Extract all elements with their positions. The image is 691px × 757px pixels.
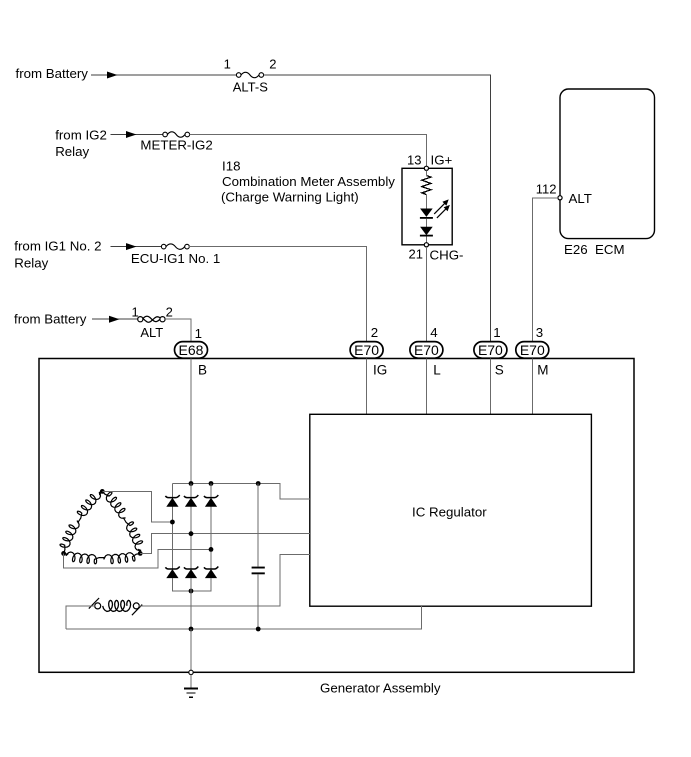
- fuse METER-IG2: [167, 132, 185, 137]
- diode D3 (upper right): [204, 495, 218, 498]
- wire capacitor to top bus: [257, 484, 259, 567]
- svg-text:from IG2: from IG2: [55, 128, 107, 143]
- wire stator phase A to left diode column: [102, 491, 172, 522]
- stator node bottom-right vertex: [138, 551, 143, 556]
- junction dot ground/capacitor: [256, 627, 261, 632]
- svg-text:S: S: [495, 363, 504, 378]
- svg-text:from Battery: from Battery: [16, 66, 89, 81]
- fusible link ALT: [143, 316, 161, 321]
- fuse ALT-S: [241, 72, 259, 77]
- wire LED2 to pin 21: [425, 237, 427, 243]
- svg-text:2: 2: [269, 57, 276, 72]
- wire node M from E70 to IC regulator: [531, 359, 533, 415]
- svg-text:1: 1: [224, 57, 231, 72]
- LED D1 (charge warning light): [420, 209, 433, 217]
- svg-text:Relay: Relay: [55, 144, 89, 159]
- svg-text:L: L: [433, 363, 441, 378]
- brush slash left: [89, 598, 99, 609]
- svg-text:13: 13: [407, 153, 421, 168]
- junction dot bus/capacitor: [256, 481, 261, 486]
- diode column right (vertical wire): [210, 484, 212, 570]
- wire node S from E70 to IC regulator: [489, 359, 491, 415]
- junction dot phase B: [189, 531, 194, 536]
- stator winding side top-left: [60, 491, 102, 553]
- brush terminal left (slip ring): [95, 603, 101, 609]
- junction dot phase A: [170, 520, 175, 525]
- wire stator phase B to middle column and IC regulator: [140, 534, 310, 554]
- stator winding side bottom: [64, 552, 141, 564]
- ground bus wire: [66, 606, 422, 629]
- wire node L from E70 to IC regulator: [425, 359, 427, 415]
- resistor (charge lamp) in meter: [422, 176, 431, 195]
- svg-text:I18: I18: [222, 159, 241, 174]
- wire bottom bus to ground line: [190, 578, 192, 629]
- IC regulator U1: [310, 414, 592, 606]
- svg-text:from Battery: from Battery: [14, 312, 87, 327]
- wire ECM pin 112 to connector E70 pin 3 (node M): [532, 198, 558, 342]
- svg-text:E70: E70: [520, 342, 545, 358]
- svg-text:2: 2: [371, 325, 378, 340]
- LED light emission arrows: [434, 203, 445, 214]
- diode D1 (upper left): [165, 495, 179, 498]
- svg-text:E26 ECM: E26 ECM: [564, 242, 625, 257]
- svg-text:B: B: [198, 363, 207, 378]
- wire ALT to connector E68 pin 1 (node B): [165, 319, 191, 341]
- svg-text:4: 4: [430, 325, 437, 340]
- generator assembly box: [39, 359, 634, 673]
- wire from Battery to fusible link ALT: [92, 318, 138, 320]
- connector E70 pin 2 (IG): [350, 342, 383, 359]
- wire METER-IG2 to meter pin 13 (node IG+): [190, 135, 427, 167]
- rectifier bottom bus: [172, 578, 211, 591]
- capacitor C1 (noise suppressor): [252, 567, 265, 569]
- wire right brush to IC regulator: [139, 554, 310, 606]
- junction dot bus/right diode column: [209, 481, 214, 486]
- wire ALT-S to connector E70 pin 1 (node S): [264, 75, 491, 342]
- svg-text:1: 1: [195, 326, 202, 341]
- svg-text:ECU-IG1 No. 1: ECU-IG1 No. 1: [131, 251, 220, 266]
- svg-text:ALT: ALT: [569, 191, 592, 206]
- svg-text:E70: E70: [414, 342, 439, 358]
- svg-text:E70: E70: [354, 342, 379, 358]
- svg-text:ALT: ALT: [140, 325, 163, 340]
- diode column middle (vertical wire): [190, 484, 192, 570]
- svg-text:from IG1 No. 2: from IG1 No. 2: [14, 239, 101, 254]
- svg-text:1: 1: [131, 305, 138, 320]
- rotor field coil L1: [103, 600, 131, 611]
- pin 112 terminal circle: [558, 196, 562, 200]
- diode D2 (upper middle): [184, 495, 198, 498]
- diode column left (vertical wire): [171, 484, 173, 570]
- wire from IG1 No.2 Relay to fuse ECU-IG1: [111, 246, 162, 248]
- ECM box E26: [560, 89, 655, 239]
- fuse ECU-IG1 No. 1: [166, 244, 185, 249]
- combination meter box I18: [402, 168, 452, 245]
- wire left brush to ground line: [66, 606, 95, 629]
- pin 13 terminal circle: [424, 166, 428, 170]
- junction dot ground/node B leg: [189, 627, 194, 632]
- LED D2 (charge warning light): [420, 227, 433, 235]
- wire pin to ground symbol: [190, 675, 192, 688]
- wire from Battery to fuse ALT-S: [91, 74, 238, 76]
- wire from IG2 Relay to fuse METER-IG2: [111, 134, 163, 136]
- connector E70 pin 3 (M): [516, 342, 549, 359]
- wire LED1 to LED2: [425, 219, 427, 227]
- diode D5 (lower middle): [184, 567, 198, 570]
- svg-text:IG: IG: [373, 363, 387, 378]
- svg-text:M: M: [537, 363, 548, 378]
- wire resistor to LED1: [425, 195, 427, 209]
- wire stator phase C to right diode column: [64, 549, 211, 568]
- pin 21 terminal circle: [424, 243, 428, 247]
- svg-text:Generator Assembly: Generator Assembly: [320, 681, 441, 696]
- stator winding side top-right: [102, 491, 142, 553]
- svg-text:E68: E68: [179, 342, 204, 358]
- connector E70 pin 4 (L): [410, 342, 443, 359]
- svg-text:E70: E70: [478, 342, 503, 358]
- brush slash right: [132, 605, 142, 616]
- wire node B ground leg to case pin: [190, 629, 192, 670]
- stator node bottom-left vertex: [61, 551, 66, 556]
- ground symbol: [184, 688, 198, 690]
- brush terminal right (slip ring): [133, 603, 139, 609]
- svg-text:112: 112: [536, 182, 557, 197]
- wire node IG from E70 to IC regulator: [366, 359, 368, 415]
- wire meter pin 21 to connector E70 pin 4 (node L): [425, 247, 427, 342]
- junction dot bus/node B: [189, 481, 194, 486]
- svg-text:CHG-: CHG-: [430, 248, 464, 263]
- svg-text:2: 2: [166, 305, 173, 320]
- svg-text:(Charge Warning Light): (Charge Warning Light): [221, 190, 359, 205]
- svg-text:IC Regulator: IC Regulator: [412, 505, 487, 520]
- stator node top vertex: [100, 489, 105, 494]
- rectifier top bus (B+): [172, 484, 309, 500]
- connector E70 pin 1 (S): [474, 342, 507, 359]
- junction dot phase C: [209, 547, 214, 552]
- wire node B from E68 to rectifier top bus: [190, 359, 192, 484]
- wire capacitor to ground line: [257, 574, 259, 629]
- diode D6 (lower right): [204, 567, 218, 570]
- svg-text:1: 1: [493, 325, 500, 340]
- svg-text:IG+: IG+: [431, 153, 453, 168]
- junction dot bottom bus/ground leg: [189, 589, 194, 594]
- svg-text:METER-IG2: METER-IG2: [140, 138, 212, 153]
- svg-text:21: 21: [409, 247, 423, 262]
- connector E68: [175, 342, 208, 359]
- svg-text:Combination Meter Assembly: Combination Meter Assembly: [222, 174, 395, 189]
- svg-text:ALT-S: ALT-S: [233, 80, 268, 95]
- svg-text:Relay: Relay: [14, 255, 48, 270]
- svg-text:3: 3: [536, 325, 543, 340]
- wire ECU-IG1 to connector E70 pin 2 (node IG): [189, 247, 366, 342]
- diode D4 (lower left): [165, 567, 179, 570]
- case ground pin circle: [189, 670, 193, 674]
